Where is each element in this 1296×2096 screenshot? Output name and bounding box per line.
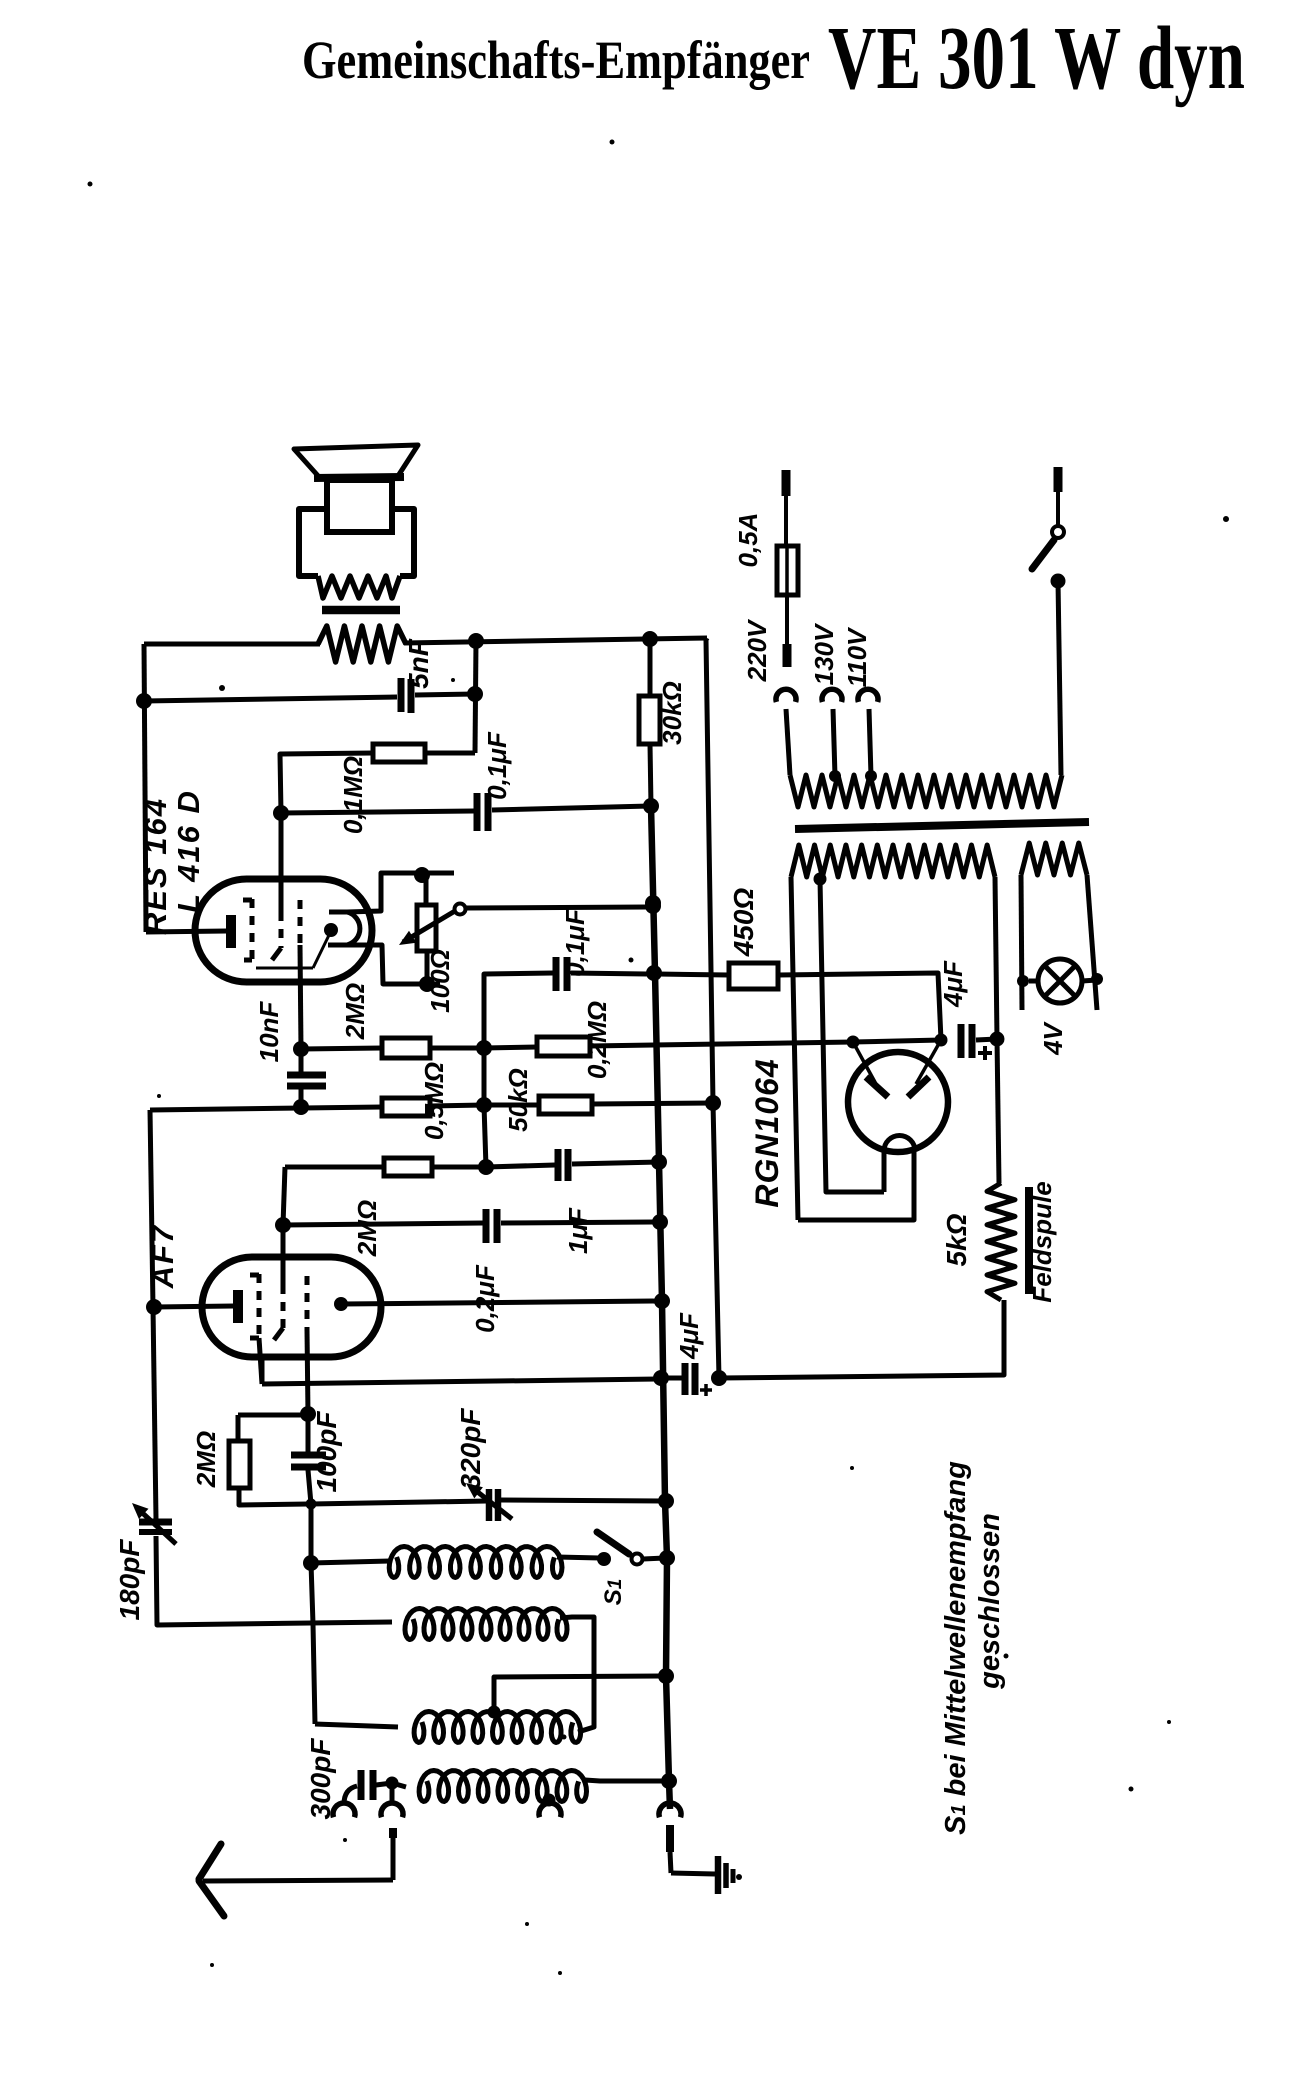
terminal 110V socket [858,689,878,702]
wire node to 1uF [486,1165,555,1167]
wire 4V right lead [1087,875,1097,1010]
output transformer core bar [322,606,400,615]
wire HT left lead [791,877,798,1220]
switch S1 contact dot [597,1552,611,1566]
wire fuse top [784,494,788,546]
wire 50k to B+ [592,1103,713,1104]
svg-text:450Ω: 450Ω [728,888,759,958]
tube AF7 grid1 lead out [259,1338,262,1384]
resistor 0,5MOhm [382,1098,430,1116]
loudspeaker neck [327,480,392,532]
wire 4uF2 left [661,1376,682,1381]
wire row1105 left corner [150,1107,382,1110]
wire antenna vertical [391,1836,396,1880]
svg-text:320pF: 320pF [455,1408,486,1490]
wire 100pF stem bottom [308,1470,311,1504]
svg-text:130V: 130V [809,622,839,685]
antenna symbol [199,1844,221,1879]
wire S1 to bus [643,1558,664,1559]
svg-text:0,2MΩ: 0,2MΩ [582,1001,612,1079]
capacitor 4uF2 plates [682,1363,689,1395]
wire ground plug [666,1825,674,1852]
wire bus to 450 [657,974,729,975]
wire 0,1uF row left [281,811,474,813]
tube AF7 grid3 dashed [305,1276,310,1330]
inductor coil3 [414,1712,581,1743]
speaker magnet box [299,509,327,576]
svg-text:5kΩ: 5kΩ [941,1213,972,1266]
svg-text:VE 301 W dyn: VE 301 W dyn [828,9,1245,108]
transformer primary winding [790,775,1062,807]
transformer core bar [795,822,1089,829]
node wiper bus [645,898,661,914]
inductor coil4 [419,1771,586,1802]
wire lamp left lead [1029,979,1038,984]
wire 300pF to coil4 [376,1783,392,1785]
svg-text:0,5A: 0,5A [733,513,763,568]
potentiometer wiper terminal [455,904,466,915]
svg-text:4V: 4V [1038,1020,1068,1055]
wire bus 30k to node [650,744,651,806]
svg-text:5nF: 5nF [403,638,434,689]
node anode-pot top [414,867,430,883]
tube RES164 anode [328,912,360,945]
wire left vertical [144,644,146,932]
mains switch contact dot [1051,574,1066,589]
node coil1 feed [303,1555,319,1571]
node 4uF2 right [714,1372,727,1385]
node pot bottom [419,976,435,992]
fuse top terminal [782,470,791,496]
wire bus upper thin [648,639,653,696]
wire HTplus to 5k [997,1039,999,1183]
wire AF7 cathode drop [153,1307,156,1519]
mains switch pivot [1052,526,1064,538]
svg-text:S1: S1 [600,1579,627,1606]
node bus AF7 anode row [654,1293,670,1309]
node bus 1uF row [651,1154,667,1170]
wire bracket bottom [239,1488,308,1505]
speck [88,182,93,187]
svg-text:2MΩ: 2MΩ [352,1200,382,1257]
fuse bottom terminal [783,644,792,667]
loudspeaker cone [294,445,418,478]
svg-text:4μF: 4μF [674,1312,704,1360]
svg-text:1μF: 1μF [563,1207,593,1254]
variable capacitor 180pF arrow [136,1507,176,1544]
wire 5k bottom [720,1300,1004,1378]
node bus coil4 row [661,1773,677,1789]
capacitor 300pF plates [358,1770,365,1800]
wire 5nF row right [415,694,475,695]
tube RES164 cathode lead [146,931,227,932]
tube AF7 grid1 dashed [257,1274,262,1338]
fuse 0,5A body [777,546,798,595]
tube AF7 grid3 lead out [307,1330,308,1414]
wire coil4 right lead [585,1780,666,1781]
svg-text:180pF: 180pF [114,1539,145,1621]
svg-text:30kΩ: 30kΩ [657,681,687,745]
capacitor 0,2uF plates [483,1209,490,1243]
wire 0,1uF2 left corner [484,973,553,1046]
potentiometer arrow [403,911,455,942]
wire wiper to bus [466,907,650,908]
terminal antenna socket 1 [333,1803,355,1817]
svg-text:AF7: AF7 [145,1224,180,1290]
svg-text:0,2μF: 0,2μF [470,1264,500,1333]
svg-text:2MΩ: 2MΩ [191,1431,221,1488]
wire 10nF stem bottom [299,1089,304,1107]
wire node to 50k [484,1103,539,1108]
terminal chassis socket [659,1803,681,1817]
resistor 30kOhm [639,696,660,744]
capacitor 100pF plates [291,1452,326,1459]
tube RGN1064 anode plate right [908,1077,929,1097]
ground symbol [715,1856,722,1894]
resistor 2MOhm top [382,1038,430,1058]
wire AF7 grid1 corner [260,1357,265,1384]
plus sign 4uF2 [700,1388,712,1392]
svg-text:50kΩ: 50kΩ [503,1068,533,1132]
wire coil1 to S1 [557,1557,600,1558]
wire 100pF stem top [306,1414,311,1452]
tube AF7 cathode lead [154,1306,234,1307]
terminal antenna socket 2 [381,1803,403,1817]
resistor 5kOhm zigzag [987,1183,1015,1300]
mains switch blade [1032,540,1054,569]
capacitor 1uF plates [555,1149,562,1181]
wire 1uF to bus [572,1162,657,1164]
capacitor 180pF plates [139,1519,172,1526]
wire top rail right [404,638,707,643]
capacitor 0,1uF plates [474,793,481,831]
wire 450 to corner [778,973,941,1040]
terminal 130V socket [822,689,842,702]
potentiometer 100Ohm body [417,905,436,951]
node bus 4uF row [653,1370,669,1386]
node grid2 row [273,805,289,821]
terminal coil4 tap socket [539,1803,561,1817]
wire 0,1uF row right [492,806,651,810]
resistor 450Ohm [729,963,778,989]
node 300pF right [386,1777,399,1790]
wire B+ vertical [706,638,719,1378]
wire coil1-coil3 vertical [311,1563,315,1724]
node top-rail bus [642,631,658,647]
svg-text:110V: 110V [842,626,872,687]
wire 0,5M to node [430,1105,484,1106]
node HT center tap [814,873,827,886]
wire 300pF terminal stem [390,1783,395,1805]
node RGN anode left [847,1036,860,1049]
resistor 0,1Mohm [373,744,425,762]
resistor 50kOhm [539,1096,592,1114]
node bus 320pF row [658,1493,674,1509]
capacitor 4uF plates [958,1024,965,1058]
wire 4uF right [976,1039,997,1040]
wire lamp right lead [1082,980,1097,981]
node row1225 [275,1217,291,1233]
node RGN anode right [935,1034,948,1047]
transformer 4V winding [1021,843,1087,875]
node top-rail 5nF drop [468,633,484,649]
svg-text:0,5MΩ: 0,5MΩ [419,1062,449,1140]
wire pot top stub [424,875,429,905]
node bus 0,1uF row [643,798,659,814]
wire 320pF row right [501,1500,663,1501]
node AF7 cathode [146,1299,162,1315]
tube RES164 grid3 dashed [298,900,303,945]
resistor 0,2MOhm [537,1037,590,1056]
node row1165 [478,1159,494,1175]
terminal 220V socket [776,689,796,702]
wire 0,1Mohm left corner [280,753,373,813]
lamp 4V [1038,959,1082,1003]
field coil bar [1025,1187,1033,1294]
svg-text:220V: 220V [742,618,772,682]
node B+ 4uF2 row [711,1370,727,1386]
wire node to 0,2M [484,1047,537,1048]
node B+ 50k row [705,1095,721,1111]
wire 0,1uF2 right [571,973,652,974]
tube AF7 anode [334,1297,348,1311]
tube AF7 grid2 dashed [281,1285,286,1328]
svg-text:100pF: 100pF [311,1411,342,1493]
wire mains switch top [1056,490,1060,526]
wire coil3 lead [315,1724,398,1727]
node 10nF bottom [293,1099,309,1115]
svg-text:10nF: 10nF [254,1001,284,1063]
tube RGN1064 filament arc [884,1136,915,1152]
svg-text:2MΩ: 2MΩ [340,983,370,1040]
capacitor 5nF plates [398,678,405,712]
wire bus thick [651,806,670,1809]
wire AF7 anode to bus [341,1301,660,1304]
tube AF7 envelope [202,1257,381,1357]
tube RES164 grid2 dashed [279,912,284,948]
wire coil3 tap up [494,1676,663,1712]
wire chassis row [262,1379,658,1384]
node bus 0,2uF row [652,1214,668,1230]
node 130V tap [829,770,841,782]
inductor coil2 [405,1609,567,1640]
node left 5nF row [136,693,152,709]
mains switch top terminal [1054,467,1063,492]
wire row1047 to RGN [590,1042,853,1046]
tube RGN1064 filament lead right [798,1151,914,1220]
resistor 2MOhm lower [384,1158,432,1176]
tube RES164 cathode bar [226,915,236,948]
wire row1047-1105 link [482,1048,487,1105]
node bus coil3 tap row [658,1668,674,1684]
tube RGN1064 envelope [848,1052,948,1152]
tube RGN1064 anode lead right [916,1040,941,1084]
wire 4V left lead [1021,875,1022,1010]
svg-text:300pF: 300pF [305,1738,336,1820]
tube RES164 anode lead top [347,873,454,912]
tube RGN1064 anode lead left [853,1042,876,1084]
resistor 2MOhm gridleak [229,1441,250,1488]
output transformer primary resistor zigzag [318,626,406,662]
svg-text:L 416 D: L 416 D [171,789,206,913]
wire 2M lower to node [432,1165,486,1170]
wire 220V to primary [786,709,790,775]
tube RGN1064 anode plate left [866,1077,888,1097]
tube RES164 grid2 lead [279,813,284,912]
wire row1105-1165 link [484,1105,486,1167]
node row1105 [476,1097,492,1113]
svg-text:0,1MΩ: 0,1MΩ [338,756,368,834]
svg-text:Feldspule: Feldspule [1027,1181,1057,1302]
wire 180pF drop [156,1536,392,1625]
wire 130V to primary [833,709,835,776]
wire 10nF stem top [299,1049,304,1072]
svg-text:Gemeinschafts-Empfänger: Gemeinschafts-Empfänger [302,30,810,90]
wire 5nF row left [144,697,397,701]
node lamp right [1091,973,1103,985]
wire 2M to node [430,1046,484,1051]
wire 300pF left lead [344,1786,357,1804]
svg-text:0,1μF: 0,1μF [560,908,590,977]
wire row1165 drop [283,1167,285,1225]
tube RES164 envelope [195,879,372,982]
svg-text:RES 164: RES 164 [138,797,173,935]
node lamp left [1017,975,1029,987]
capacitor 320pF plates [486,1489,493,1521]
svg-text:4μF: 4μF [938,960,968,1008]
tube RES164 grid3 lead out [300,945,301,1049]
wire ground horizontal [671,1873,715,1874]
loudspeaker cone mouth bar [314,477,404,478]
wire antenna horizontal [203,1880,393,1881]
speaker voice-coil zigzag [318,576,400,598]
wire bracket top [238,1413,308,1418]
capacitor 0,1uF2 plates [553,957,560,991]
wire HT right lead [995,877,997,1039]
wire coil2 right lead [560,1617,594,1732]
node row1047 [476,1040,492,1056]
wire HT row right [853,1040,941,1042]
svg-text:geschlossen: geschlossen [974,1513,1006,1690]
plus sign 4uF [978,1051,992,1055]
wire 320pF row left [311,1501,487,1504]
node grid3 bracket [300,1406,316,1422]
switch S1 blade [597,1532,629,1554]
tube RGN1064 filament lead left [882,1151,887,1192]
tube RES164 anode lead bottom [347,945,440,984]
node 110V tap [865,770,877,782]
node bus wiper row [645,895,661,911]
tube RES164 screen strap [313,931,331,968]
capacitor 10nF plates [287,1072,326,1079]
node coil3 tap [488,1706,501,1719]
svg-text:0,1μF: 0,1μF [482,731,512,800]
wire row1165 left [285,1165,384,1170]
wire row1225 left [283,1223,483,1225]
wire 0,2uF to bus [501,1222,657,1223]
wire 10nF to 2M [301,1048,382,1049]
wire pot bottom [425,951,430,984]
node bus 0,1uF2-450 row [646,965,662,981]
tube RES164 grid1 dashed [250,899,255,961]
wire 0,1Mohm right [425,751,475,756]
svg-text:RGN1064: RGN1064 [749,1058,785,1207]
wire coil1 lead [311,1561,390,1563]
node 5nF right [467,686,483,702]
svg-text:S1 bei Mittelwellenempfang: S1 bei Mittelwellenempfang [940,1461,972,1835]
wire HT center tap lead [820,879,884,1192]
svg-text:100Ω: 100Ω [425,949,455,1013]
tube AF7 cathode bar [233,1290,243,1323]
node detector grid [306,1499,317,1510]
variable capacitor 320pF arrow [470,1486,512,1519]
wire mains switch to primary [1058,581,1061,775]
tube AF7 grid2 lead [281,1225,286,1285]
wire 5nF-node drop [475,641,476,753]
switch S1 open terminal [632,1554,643,1565]
wire det-grid drop [309,1504,314,1563]
node bus S1 [659,1550,675,1566]
transformer HT secondary winding [791,845,995,877]
wire top rail left [144,642,320,647]
node coil4 tap [543,1794,556,1807]
wire fuse bottom [785,595,789,646]
node HT plus [990,1032,1005,1047]
node 10nF top [293,1041,309,1057]
wire 110V to primary [869,709,871,776]
inductor coil1 [389,1547,562,1578]
